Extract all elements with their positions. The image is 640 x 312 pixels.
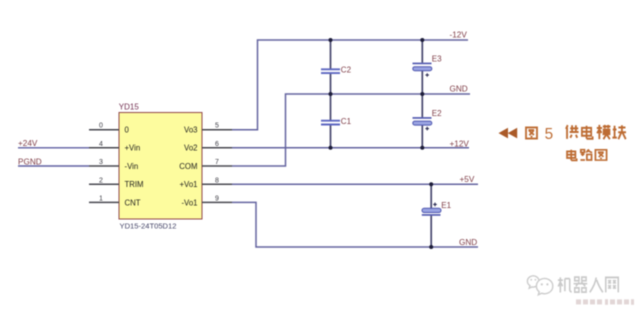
- capacitor E3 (polarized): [413, 40, 443, 94]
- svg-text:5: 5: [215, 123, 219, 130]
- wire net pin9 to bottom GND rail: [232, 202, 478, 247]
- svg-text:0: 0: [125, 126, 130, 135]
- pin 9 stub (-Vo1): [202, 201, 232, 203]
- pin 6 stub (Vo2): [202, 147, 232, 149]
- svg-text:8: 8: [215, 177, 219, 184]
- junction E1 +5V rail: [429, 182, 433, 186]
- capacitor C2: [321, 40, 352, 94]
- pin number 2: [99, 177, 103, 184]
- svg-text:-Vin: -Vin: [125, 162, 139, 171]
- svg-text:E1: E1: [441, 201, 451, 210]
- capacitor C1: [321, 94, 352, 148]
- svg-text:+12V: +12V: [450, 140, 470, 149]
- watermark text 机器人网: [558, 277, 618, 292]
- svg-text:3: 3: [99, 159, 103, 166]
- node +24V: [18, 139, 38, 148]
- pin number 8: [215, 177, 219, 184]
- svg-text:+24V: +24V: [18, 139, 38, 148]
- svg-text:Vo2: Vo2: [184, 144, 197, 153]
- pin name +Vo1: [180, 180, 198, 189]
- capacitor E1 (polarized): [422, 184, 452, 247]
- svg-text:Vo3: Vo3: [184, 126, 197, 135]
- junction E1 bottom GND rail: [429, 245, 433, 249]
- node +12V: [450, 140, 470, 149]
- svg-text:+5V: +5V: [460, 175, 475, 184]
- svg-text:2: 2: [99, 177, 103, 184]
- svg-text:GND: GND: [459, 238, 477, 247]
- node -12V: [450, 31, 468, 40]
- pin number 1: [99, 196, 103, 203]
- pin number 5: [215, 123, 219, 130]
- node +5V: [460, 175, 475, 184]
- capacitor E2 (polarized): [413, 94, 443, 148]
- svg-text:GND: GND: [450, 84, 468, 93]
- wire net pin8 +5V rail: [232, 183, 478, 185]
- svg-text:6: 6: [215, 141, 219, 148]
- pin name -Vin: [125, 162, 139, 171]
- pin 3 stub (-Vin): [89, 165, 119, 167]
- junction E2 +12V rail: [420, 146, 424, 150]
- node GND (lower): [459, 238, 477, 247]
- pin name Vo3: [184, 126, 197, 135]
- svg-text:0: 0: [99, 123, 103, 130]
- svg-text:7: 7: [215, 159, 219, 166]
- caption arrows: [499, 128, 518, 139]
- wire net pin6 +12V rail: [232, 147, 469, 149]
- junction C2/C1 GND rail: [329, 92, 333, 96]
- svg-text:TRIM: TRIM: [125, 180, 144, 189]
- pin name -Vo1: [181, 198, 197, 207]
- pin 0 stub: [89, 129, 119, 131]
- pin number 4: [99, 141, 103, 148]
- pin name Vo2: [184, 144, 197, 153]
- svg-text:-Vo1: -Vo1: [181, 198, 197, 207]
- pin number 0: [99, 123, 103, 130]
- svg-text:+Vin: +Vin: [125, 144, 141, 153]
- pin name +Vin: [125, 144, 141, 153]
- pin number 7: [215, 159, 219, 166]
- svg-text:+Vo1: +Vo1: [180, 180, 198, 189]
- pin number 6: [215, 141, 219, 148]
- svg-text:E3: E3: [432, 55, 442, 64]
- svg-text:E2: E2: [432, 109, 442, 118]
- pin 1 stub (CNT): [89, 201, 119, 203]
- pin name CNT: [125, 198, 141, 207]
- svg-text:PGND: PGND: [18, 157, 42, 166]
- svg-text:4: 4: [99, 141, 103, 148]
- svg-text:CNT: CNT: [125, 198, 141, 207]
- pin 7 stub (COM): [202, 165, 232, 167]
- svg-text:C1: C1: [341, 117, 352, 126]
- node GND (upper): [450, 84, 468, 93]
- svg-text:YD15: YD15: [119, 103, 140, 112]
- wire +24V input: [18, 147, 89, 149]
- op-amp U1 : DC-DC converter IC YD15 body: [119, 103, 202, 231]
- pin 2 stub (TRIM): [89, 183, 119, 185]
- pin 4 stub (+Vin): [89, 147, 119, 149]
- svg-text:C2: C2: [341, 65, 352, 74]
- svg-text:-12V: -12V: [450, 31, 468, 40]
- watermark wechat icon: [527, 276, 552, 295]
- pin number 9: [215, 196, 219, 203]
- svg-text:9: 9: [215, 196, 219, 203]
- pin 5 stub (Vo3): [202, 129, 232, 131]
- pin name TRIM: [125, 180, 144, 189]
- node PGND: [18, 157, 42, 166]
- svg-text:COM: COM: [179, 162, 197, 171]
- watermark small source text: [576, 299, 634, 305]
- pin name 0: [125, 126, 130, 135]
- junction E3 top rail: [420, 38, 424, 42]
- pin number 3: [99, 159, 103, 166]
- wire net pin7 to GND rail: [232, 94, 470, 166]
- svg-text:5: 5: [545, 126, 554, 143]
- wire PGND input: [18, 165, 89, 167]
- junction E3/E2 GND rail: [420, 92, 424, 96]
- junction C1 +12V rail: [329, 146, 333, 150]
- pin 8 stub (+Vo1): [202, 183, 232, 185]
- svg-text:1: 1: [99, 196, 103, 203]
- caption figure text line 1: 图 5 供电模块: [526, 127, 537, 138]
- wire net pin5 to -12V rail: [232, 40, 468, 130]
- svg-text:YD15-24T05D12: YD15-24T05D12: [120, 222, 177, 231]
- caption figure text line 2: 电路图: [567, 149, 607, 160]
- junction C2 top rail: [329, 38, 333, 42]
- pin name COM: [179, 162, 197, 171]
